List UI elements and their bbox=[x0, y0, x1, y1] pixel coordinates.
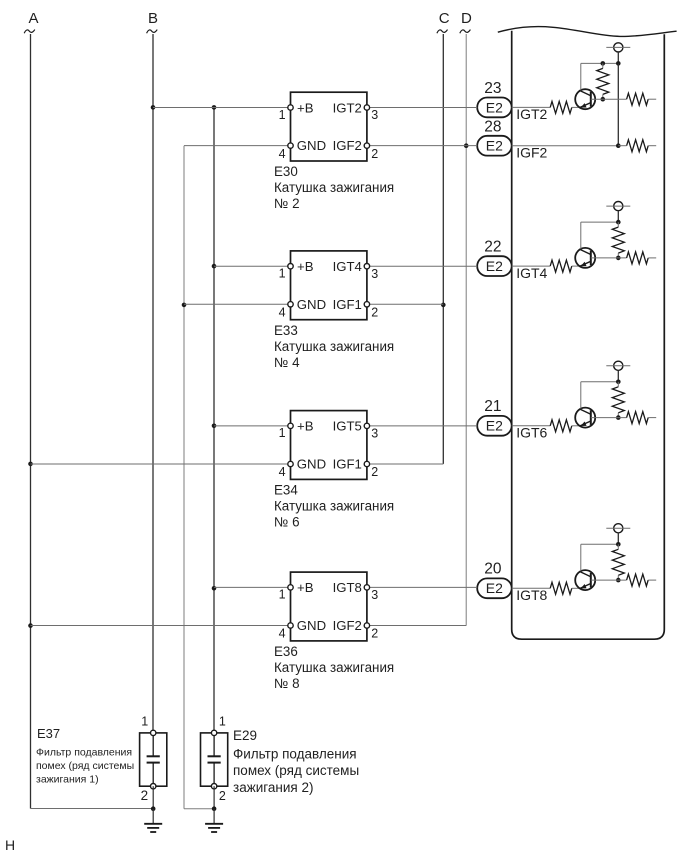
svg-text:21: 21 bbox=[484, 398, 501, 415]
resistor Q2 output bbox=[627, 252, 649, 264]
ignition coil E34 box bbox=[291, 411, 367, 480]
wire resistor to transistor emitter bbox=[572, 425, 580, 427]
connector E2 pin 20 (IGT8) bbox=[477, 578, 512, 598]
power supply symbol bbox=[606, 43, 630, 52]
junction +B bus row1 bbox=[212, 105, 217, 110]
wire +B bus to coil4 bbox=[214, 586, 291, 588]
svg-text:E2: E2 bbox=[486, 258, 503, 274]
svg-text:3: 3 bbox=[371, 108, 378, 122]
svg-text:E2: E2 bbox=[486, 580, 503, 596]
resistor Q3 output bbox=[627, 412, 649, 424]
transistor Q Q1 bbox=[575, 89, 595, 109]
noise filter E37 box bbox=[140, 733, 167, 786]
svg-text:IGF2: IGF2 bbox=[333, 618, 362, 633]
wire coil3 GND to A bbox=[31, 463, 291, 465]
ECU block (torn-top rounded box) bbox=[498, 27, 677, 640]
svg-text:GND: GND bbox=[297, 457, 326, 472]
svg-text:E33: E33 bbox=[274, 323, 298, 338]
pin 4 (GND) bbox=[279, 143, 294, 161]
wire top rail bbox=[581, 62, 619, 64]
svg-text:3: 3 bbox=[371, 267, 378, 281]
filter pin 1 bbox=[211, 714, 225, 735]
wire GND bus to E29 ground bbox=[184, 808, 214, 810]
filter pin 2 bbox=[211, 784, 225, 803]
pin number 20 label bbox=[484, 561, 502, 578]
footer label H bbox=[5, 837, 15, 853]
svg-text:3: 3 bbox=[371, 427, 378, 441]
svg-text:IGT8: IGT8 bbox=[516, 587, 547, 603]
resistor Q1 output bbox=[627, 93, 649, 105]
transistor Q Q3 bbox=[575, 408, 595, 428]
svg-text:помех (ряд системы: помех (ряд системы bbox=[36, 760, 134, 772]
wire IGT8 from E2 to resistor bbox=[512, 587, 551, 589]
pin number 28 label bbox=[484, 119, 501, 136]
coil E30 designation label bbox=[274, 164, 298, 179]
svg-text:2: 2 bbox=[371, 465, 378, 479]
transistor Q Q2 bbox=[575, 248, 595, 268]
svg-text:Катушка зажигания: Катушка зажигания bbox=[274, 180, 394, 195]
svg-text:IGF2: IGF2 bbox=[516, 145, 547, 161]
svg-text:IGT8: IGT8 bbox=[333, 580, 362, 595]
coil pin labels bbox=[297, 580, 362, 633]
wire IGF2 row inside ECU bbox=[512, 145, 619, 147]
svg-text:№ 4: № 4 bbox=[274, 355, 300, 370]
pin 4 (GND) bbox=[279, 302, 294, 320]
wire label IGT6 bbox=[516, 425, 547, 441]
node B bbox=[147, 10, 158, 33]
svg-text:№ 2: № 2 bbox=[274, 196, 300, 211]
wire resistor tail bbox=[648, 579, 656, 581]
wire collector to rail bbox=[580, 63, 582, 90]
ignition coil E30 box bbox=[291, 92, 367, 161]
junction rail/power bbox=[616, 61, 621, 66]
resistor pull-up Q1 bbox=[597, 63, 609, 99]
wire coil1 GND to GND bus bbox=[184, 145, 291, 147]
wire label IGF2 bbox=[516, 145, 547, 161]
svg-text:IGT2: IGT2 bbox=[516, 106, 547, 122]
svg-text:E34: E34 bbox=[274, 483, 298, 498]
ground symbol E29 bbox=[205, 809, 223, 832]
svg-text:4: 4 bbox=[279, 465, 286, 479]
svg-text:№ 6: № 6 bbox=[274, 515, 300, 530]
wire +B bus vertical bbox=[213, 107, 215, 730]
svg-text:№ 8: № 8 bbox=[274, 676, 300, 691]
wire resistor to transistor emitter bbox=[572, 106, 580, 108]
filter E37 designation label bbox=[37, 726, 60, 741]
svg-text:IGF2: IGF2 bbox=[333, 138, 362, 153]
svg-text:IGT2: IGT2 bbox=[333, 100, 362, 115]
wire coil2 IGT4 to E2 bbox=[367, 265, 477, 267]
svg-text:IGF1: IGF1 bbox=[333, 457, 362, 472]
wire collector to rail bbox=[580, 544, 582, 571]
wire B vertical bbox=[152, 34, 154, 730]
resistor IGF pull-up bbox=[627, 140, 649, 152]
junction base/pullup bbox=[616, 415, 621, 420]
coil E36 designation label bbox=[274, 644, 298, 659]
wire coil3 IGT5 to E2 bbox=[367, 425, 477, 427]
wire coil4 GND to A bbox=[31, 625, 291, 627]
svg-text:C: C bbox=[439, 10, 450, 27]
resistor pull-up Q3 bbox=[612, 382, 624, 418]
junction base/pullup bbox=[616, 578, 621, 583]
connector E2 pin 28 (IGF2) bbox=[477, 136, 512, 156]
svg-text:2: 2 bbox=[371, 147, 378, 161]
coil pin labels bbox=[297, 100, 362, 153]
svg-text:E2: E2 bbox=[486, 99, 503, 115]
svg-text:IGT4: IGT4 bbox=[516, 265, 547, 281]
node A bbox=[24, 10, 38, 33]
svg-text:Фильтр подавления: Фильтр подавления bbox=[36, 746, 132, 758]
wire coil4 IGF2 to D bbox=[367, 625, 466, 627]
filter pin 2 bbox=[141, 784, 156, 803]
resistor Q1 base series bbox=[550, 101, 572, 113]
noise filter E29 box bbox=[201, 733, 228, 786]
svg-text:Катушка зажигания: Катушка зажигания bbox=[274, 339, 394, 354]
wire base line bbox=[591, 417, 627, 419]
svg-text:IGT6: IGT6 bbox=[516, 425, 547, 441]
junction rail/power bbox=[616, 542, 621, 547]
svg-text:A: A bbox=[29, 10, 39, 27]
svg-text:зажигания 1): зажигания 1) bbox=[36, 774, 99, 786]
svg-text:+B: +B bbox=[297, 100, 314, 115]
svg-text:IGT5: IGT5 bbox=[333, 419, 362, 434]
junction A/coil4 GND bbox=[28, 623, 33, 628]
wire filter pin2 down bbox=[152, 786, 154, 809]
wire power to rail bbox=[617, 370, 619, 381]
pin 1 (+B) bbox=[279, 105, 294, 122]
wire top rail bbox=[581, 543, 619, 545]
pin number 22 label bbox=[484, 239, 501, 256]
resistor pull-up Q2 bbox=[612, 222, 624, 258]
wire C vertical bbox=[442, 34, 444, 464]
resistor pull-up Q4 bbox=[612, 544, 624, 580]
svg-text:Катушка зажигания: Катушка зажигания bbox=[274, 499, 394, 514]
ignition coil E33 box bbox=[291, 251, 367, 320]
wire coil1 IGT2 to E2 bbox=[367, 107, 477, 109]
filter E29 designation label bbox=[233, 728, 257, 743]
svg-text:GND: GND bbox=[297, 297, 326, 312]
wire base line bbox=[591, 257, 627, 259]
wire coil2 IGF1 to C bbox=[367, 303, 443, 305]
wire D vertical bbox=[465, 34, 467, 626]
junction rail/power bbox=[616, 380, 621, 385]
wire resistor to transistor emitter bbox=[572, 265, 580, 267]
resistor Q3 base series bbox=[550, 420, 572, 432]
junction GND bus/coil2 GND bbox=[182, 303, 187, 308]
svg-text:E36: E36 bbox=[274, 644, 298, 659]
wire label IGT2 bbox=[516, 106, 547, 122]
svg-text:20: 20 bbox=[484, 561, 502, 578]
pin 3 (IGT8) bbox=[364, 585, 378, 602]
svg-text:Катушка зажигания: Катушка зажигания bbox=[274, 660, 394, 675]
svg-text:1: 1 bbox=[141, 714, 148, 728]
svg-text:2: 2 bbox=[219, 789, 226, 803]
svg-text:GND: GND bbox=[297, 618, 326, 633]
coil pin labels bbox=[297, 259, 362, 312]
ignition coil E36 box bbox=[291, 572, 367, 641]
node C bbox=[437, 10, 450, 33]
junction base/pullup bbox=[601, 97, 606, 102]
junction rail/power bbox=[616, 220, 621, 225]
wire IGT2 from E2 to resistor bbox=[512, 106, 551, 108]
svg-text:IGT4: IGT4 bbox=[333, 259, 362, 274]
junction rail/pullup resistor bbox=[601, 61, 606, 66]
pin 1 (+B) bbox=[279, 264, 294, 281]
junction D/coil1 IGF2 bbox=[464, 143, 469, 148]
pin 2 (IGF1) bbox=[364, 302, 378, 320]
wire IGT4 from E2 to resistor bbox=[512, 265, 551, 267]
svg-text:+B: +B bbox=[297, 419, 314, 434]
wire coil4 IGT8 to E2 bbox=[367, 586, 477, 588]
pin 2 (IGF2) bbox=[364, 143, 378, 161]
resistor Q4 output bbox=[627, 574, 649, 586]
svg-text:1: 1 bbox=[279, 108, 286, 122]
wire resistor to transistor emitter bbox=[572, 587, 580, 589]
svg-text:IGF1: IGF1 bbox=[333, 297, 362, 312]
ground symbol E37 bbox=[144, 809, 162, 832]
svg-text:+B: +B bbox=[297, 259, 314, 274]
wire top rail bbox=[581, 381, 619, 383]
wire power to rail bbox=[617, 533, 619, 544]
coil E34 designation label bbox=[274, 483, 298, 498]
junction +B bus row4 bbox=[212, 586, 217, 591]
capacitor E29 bbox=[208, 733, 221, 786]
svg-text:3: 3 bbox=[371, 588, 378, 602]
svg-text:Фильтр подавления: Фильтр подавления bbox=[233, 746, 357, 761]
wire A to E37 ground bbox=[31, 808, 154, 810]
pin 3 (IGT2) bbox=[364, 105, 378, 122]
wire power to rail bbox=[617, 52, 619, 63]
svg-text:1: 1 bbox=[219, 714, 226, 728]
junction A/coil3 GND bbox=[28, 462, 33, 467]
wire base line bbox=[591, 98, 627, 100]
filter pin 1 bbox=[141, 714, 156, 735]
coil pin labels bbox=[297, 419, 362, 472]
wire collector to rail bbox=[580, 382, 582, 409]
wire coil1 IGF2 to E2 bbox=[367, 145, 477, 147]
svg-text:E29: E29 bbox=[233, 728, 257, 743]
pin 3 (IGT5) bbox=[364, 423, 378, 440]
svg-text:1: 1 bbox=[279, 267, 286, 281]
wire IGT6 from E2 to resistor bbox=[512, 425, 551, 427]
svg-text:D: D bbox=[461, 10, 472, 27]
junction +B bus row2 bbox=[212, 264, 217, 269]
svg-text:1: 1 bbox=[279, 588, 286, 602]
connector E2 pin 21 (IGT6) bbox=[477, 416, 512, 436]
wire +B bus to coil3 bbox=[214, 425, 291, 427]
power supply symbol bbox=[606, 524, 630, 533]
svg-text:зажигания 2): зажигания 2) bbox=[233, 780, 313, 795]
wire power to rail bbox=[617, 211, 619, 222]
wire collector to rail bbox=[580, 222, 582, 249]
svg-text:4: 4 bbox=[279, 627, 286, 641]
wire A vertical bbox=[30, 34, 32, 809]
junction +B bus row3 bbox=[212, 424, 217, 429]
svg-text:28: 28 bbox=[484, 119, 501, 136]
svg-text:23: 23 bbox=[484, 80, 501, 97]
svg-text:помех (ряд системы: помех (ряд системы bbox=[233, 763, 359, 778]
wire power line down to IGF row bbox=[617, 63, 619, 145]
wire filter pin2 down bbox=[213, 786, 215, 809]
svg-text:E2: E2 bbox=[486, 138, 503, 154]
pin 2 (IGF1) bbox=[364, 461, 378, 479]
svg-text:B: B bbox=[148, 10, 158, 27]
wire top rail bbox=[581, 221, 619, 223]
wire resistor tail bbox=[648, 257, 656, 259]
svg-text:2: 2 bbox=[371, 627, 378, 641]
junction C/coil2 IGF1 bbox=[441, 303, 446, 308]
connector E2 pin 22 (IGT4) bbox=[477, 256, 512, 276]
svg-text:1: 1 bbox=[279, 426, 286, 440]
wire resistor tail bbox=[648, 98, 656, 100]
pin 1 (+B) bbox=[279, 423, 294, 440]
coil E33 designation label bbox=[274, 323, 298, 338]
wire IGF resistor lead bbox=[618, 145, 656, 147]
wire label IGT4 bbox=[516, 265, 547, 281]
connector E2 pin 23 (IGT2) bbox=[477, 98, 512, 118]
svg-text:GND: GND bbox=[297, 138, 326, 153]
junction base/pullup bbox=[616, 256, 621, 261]
svg-text:Н: Н bbox=[5, 837, 15, 853]
power supply symbol bbox=[606, 202, 630, 211]
wire GND bus vertical bbox=[183, 146, 185, 809]
wire B to coil1 +B bbox=[153, 107, 291, 109]
wire +B bus to coil2 bbox=[214, 265, 291, 267]
pin 3 (IGT4) bbox=[364, 264, 378, 281]
pin 4 (GND) bbox=[279, 461, 294, 479]
svg-text:2: 2 bbox=[141, 788, 149, 803]
svg-text:E37: E37 bbox=[37, 726, 60, 741]
pin number 23 label bbox=[484, 80, 501, 97]
pin 2 (IGF2) bbox=[364, 623, 378, 641]
wire base line bbox=[591, 579, 627, 581]
pin 1 (+B) bbox=[279, 585, 294, 602]
svg-text:2: 2 bbox=[371, 306, 378, 320]
resistor Q4 base series bbox=[550, 582, 572, 594]
svg-text:E2: E2 bbox=[486, 418, 503, 434]
wire coil2 GND to GND bus bbox=[184, 303, 291, 305]
wire coil3 IGF1 to C bbox=[367, 463, 443, 465]
junction ground E37 bbox=[151, 806, 156, 811]
pin number 21 label bbox=[484, 398, 501, 415]
junction ground E29 bbox=[212, 806, 217, 811]
node D bbox=[460, 10, 472, 33]
svg-text:4: 4 bbox=[279, 147, 286, 161]
junction IGF/power line bbox=[616, 143, 621, 148]
svg-text:+B: +B bbox=[297, 580, 314, 595]
svg-text:22: 22 bbox=[484, 239, 501, 256]
power supply symbol bbox=[606, 361, 630, 370]
junction B/+B row 1 bbox=[151, 105, 156, 110]
pin 4 (GND) bbox=[279, 623, 294, 641]
resistor Q2 base series bbox=[550, 260, 572, 272]
wire resistor tail bbox=[648, 417, 656, 419]
transistor Q Q4 bbox=[575, 570, 595, 590]
svg-text:E30: E30 bbox=[274, 164, 298, 179]
wire label IGT8 bbox=[516, 587, 547, 603]
svg-text:4: 4 bbox=[279, 306, 286, 320]
capacitor E37 bbox=[147, 733, 160, 786]
